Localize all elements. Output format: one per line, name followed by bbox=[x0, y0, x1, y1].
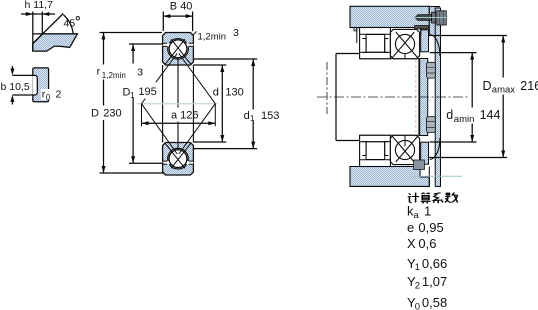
d top extension bbox=[193, 64, 226, 66]
roller cage right top bbox=[385, 39, 389, 53]
roller brg outer raceway top bbox=[360, 33, 391, 35]
svg-text:0,66: 0,66 bbox=[422, 256, 447, 271]
svg-text:amax: amax bbox=[492, 85, 515, 96]
bolt shank bbox=[415, 15, 432, 21]
bottom ball contact X bbox=[165, 143, 191, 168]
svg-text:B 40: B 40 bbox=[170, 0, 193, 12]
axis light line bbox=[137, 103, 218, 105]
top face gap lines bbox=[163, 43, 194, 46]
white backing for r0 bbox=[41, 89, 51, 100]
detail view 2: locating slot b x r0 bbox=[12, 68, 48, 102]
housing top block bbox=[350, 6, 429, 27]
shaft seat top bbox=[360, 58, 420, 60]
right bore line bbox=[192, 65, 194, 143]
b extension line bottom bbox=[12, 94, 32, 96]
top ball contact X bbox=[165, 39, 191, 64]
h extension line right bbox=[41, 12, 43, 34]
housing recess bar top bbox=[415, 25, 429, 29]
damin dimension bbox=[430, 53, 477, 142]
main cross-section: top block bbox=[163, 33, 194, 66]
main cross-section: bottom block bbox=[163, 143, 194, 176]
QJ bearing bottom mounted bbox=[390, 135, 419, 164]
QJ ball bottom mounted bbox=[395, 140, 414, 159]
diamond upper-right segment bbox=[179, 54, 216, 104]
damin dimension arrows bbox=[470, 53, 474, 142]
QJ bearing top mounted bbox=[390, 29, 419, 58]
svg-text:1: 1 bbox=[415, 262, 420, 273]
table heading 计算系数 bbox=[408, 193, 458, 204]
D1 bottom extension bbox=[129, 162, 164, 164]
a extension tick left bbox=[141, 104, 143, 127]
bore lines between blocks bbox=[163, 65, 194, 143]
B dimension arrows bbox=[163, 14, 192, 18]
bolt washer bbox=[432, 12, 436, 23]
roller brg inner raceway top bbox=[360, 51, 391, 53]
svg-text:45: 45 bbox=[64, 18, 76, 30]
housing recess bar bottom bbox=[414, 160, 425, 170]
h extension line left bbox=[32, 12, 34, 52]
diamond lower-right segment bbox=[179, 104, 216, 154]
QJ split bottom mounted bbox=[404, 135, 406, 146]
top outer+inner ring block bbox=[163, 33, 194, 66]
cover outer wall bbox=[435, 8, 440, 186]
d1 dimension arrows bbox=[251, 59, 255, 149]
cover inner fillet bottom bbox=[430, 138, 440, 160]
axis dash-dot bbox=[317, 96, 470, 98]
center split line upper bbox=[177, 65, 179, 108]
d dimension bbox=[193, 65, 226, 142]
B dimension bbox=[163, 12, 192, 32]
D1 top extension bbox=[129, 43, 163, 45]
roller bottom bbox=[366, 142, 385, 160]
housing shoulder edge bbox=[420, 28, 422, 36]
b arrow stems bbox=[11, 66, 13, 105]
spacer ring left of roller bearing bbox=[356, 28, 358, 44]
svg-text:1,2min: 1,2min bbox=[102, 71, 126, 80]
damin dimension line bbox=[471, 53, 473, 142]
roller cage left top bbox=[362, 39, 366, 53]
D1 dimension line segments bbox=[132, 44, 134, 163]
QJ ball top mounted bbox=[395, 34, 414, 53]
svg-text:3: 3 bbox=[233, 27, 239, 39]
cover flange bottom bbox=[421, 142, 429, 164]
svg-text:D: D bbox=[483, 79, 492, 93]
bottom ball gap white bbox=[163, 148, 194, 169]
roller top bbox=[366, 35, 385, 53]
svg-text:h 11,7: h 11,7 bbox=[25, 0, 54, 11]
bottom outer+inner ring block bbox=[163, 143, 194, 176]
cover flange top bbox=[421, 30, 429, 52]
svg-text:1,2min: 1,2min bbox=[198, 32, 227, 43]
red centerline at shaft end bbox=[415, 60, 417, 134]
Damax dimension arrows bbox=[501, 36, 505, 158]
left bore line bbox=[162, 65, 164, 143]
damin bottom extension bbox=[430, 141, 477, 143]
svg-text:0: 0 bbox=[415, 301, 420, 310]
white backing for d 130 bbox=[212, 87, 219, 98]
b extension line top bbox=[12, 74, 32, 76]
Damax dimension bbox=[428, 36, 507, 158]
housing locating nub bbox=[354, 28, 357, 31]
shaft seat bottom bbox=[360, 134, 420, 136]
svg-text:3: 3 bbox=[137, 67, 143, 79]
svg-text:d: d bbox=[446, 108, 453, 122]
top ball gap white bbox=[163, 39, 194, 60]
svg-text:e: e bbox=[407, 220, 414, 235]
svg-text:0,95: 0,95 bbox=[418, 220, 443, 235]
svg-text:1,07: 1,07 bbox=[422, 274, 447, 289]
roller brg outline top bbox=[360, 28, 391, 59]
roller bearing bottom bbox=[360, 135, 391, 166]
svg-text:1: 1 bbox=[130, 91, 135, 100]
white backing for d1 153 bbox=[243, 110, 254, 121]
glyph shu bbox=[445, 193, 458, 203]
seal hex top bbox=[427, 62, 436, 78]
svg-text:1: 1 bbox=[424, 204, 431, 219]
D1 dimension bbox=[129, 44, 164, 163]
D1 dimension arrows bbox=[131, 44, 135, 163]
svg-text:0,6: 0,6 bbox=[418, 236, 436, 251]
bolt bbox=[415, 11, 446, 25]
glyph xi bbox=[433, 193, 443, 204]
svg-text:D: D bbox=[123, 87, 131, 99]
top ball bbox=[169, 40, 187, 58]
Damax dimension line segments bbox=[502, 36, 504, 158]
glyph suan bbox=[421, 193, 431, 204]
chamfer detail top reference line bbox=[33, 33, 78, 35]
D bottom extension bbox=[100, 172, 165, 174]
svg-text:130: 130 bbox=[225, 87, 243, 99]
cover bottom edge bbox=[428, 167, 430, 187]
svg-text:153: 153 bbox=[261, 110, 279, 122]
D top extension bbox=[100, 32, 163, 34]
svg-text:230: 230 bbox=[103, 108, 121, 120]
cover top section bbox=[429, 7, 440, 35]
Damax top extension bbox=[428, 35, 507, 37]
cover inner fillet top bbox=[430, 35, 440, 57]
svg-text:2: 2 bbox=[415, 280, 420, 291]
h dimension arrows bbox=[26, 12, 50, 16]
QJ split top mounted bbox=[404, 54, 406, 59]
h dimension line bbox=[21, 13, 55, 15]
svg-text:195: 195 bbox=[138, 86, 156, 98]
bottom bolt centerline teal bbox=[413, 175, 463, 177]
diamond lower-left segment bbox=[142, 104, 178, 154]
cover hub bbox=[420, 59, 428, 136]
housing bottom block bbox=[350, 167, 429, 187]
svg-text:d: d bbox=[244, 110, 250, 122]
bottom ball bbox=[169, 150, 187, 168]
svg-text:0,58: 0,58 bbox=[422, 295, 447, 310]
detail view 1: ring chamfer cross-section bbox=[21, 12, 77, 52]
svg-text:1: 1 bbox=[250, 114, 255, 123]
shaft bbox=[336, 54, 420, 141]
r chamfer leader right bbox=[193, 31, 197, 35]
shaft shoulder bottom bbox=[336, 140, 360, 142]
QJ contact X bottom mounted bbox=[393, 137, 418, 163]
top raceway arcs bbox=[168, 39, 189, 60]
svg-text:144: 144 bbox=[480, 108, 501, 122]
slot notch bbox=[32, 75, 37, 95]
svg-text:2: 2 bbox=[56, 89, 62, 101]
roller brg outline bottom bbox=[360, 135, 391, 166]
svg-text:d: d bbox=[213, 87, 219, 99]
damin top extension bbox=[430, 52, 477, 54]
B extension lines bbox=[163, 12, 192, 32]
slot ring section fill bbox=[33, 68, 49, 102]
shaft end face bbox=[418, 59, 420, 136]
d dimension arrows bbox=[220, 65, 224, 142]
b dimension arrows bbox=[10, 68, 14, 102]
D dimension line segments bbox=[103, 33, 105, 174]
QJ block top mounted bbox=[390, 29, 419, 58]
bottom inner ring split bbox=[177, 143, 179, 150]
center split line lower bbox=[177, 122, 179, 143]
bolt head facet lines bbox=[440, 11, 443, 25]
roller brg outer raceway bottom bbox=[360, 159, 391, 161]
d1 dimension bbox=[193, 59, 257, 149]
svg-text:amin: amin bbox=[454, 114, 475, 125]
chamfer detail section fill bbox=[33, 34, 78, 51]
d dimension line bbox=[221, 65, 223, 142]
glyph ji bbox=[408, 193, 420, 203]
diamond upper-left segment bbox=[142, 54, 178, 104]
svg-text:b 10,5: b 10,5 bbox=[1, 81, 30, 93]
svg-text:D: D bbox=[91, 108, 99, 120]
top inner ring split bbox=[177, 58, 179, 65]
cover top edge line bbox=[429, 6, 440, 34]
D dimension arrows bbox=[102, 33, 106, 174]
45 degree arc bbox=[64, 15, 74, 34]
svg-text:0: 0 bbox=[46, 93, 51, 102]
svg-text:216: 216 bbox=[520, 79, 538, 93]
svg-text:r: r bbox=[97, 66, 101, 78]
roller bearing top bbox=[360, 28, 391, 59]
QJ block bottom mounted bbox=[390, 135, 419, 164]
seal hex bottom bbox=[427, 117, 436, 133]
bottom raceway arcs bbox=[168, 148, 189, 169]
45 degree chamfer line bbox=[33, 14, 64, 44]
a dimension arrows bbox=[142, 121, 216, 125]
d1 bottom extension bbox=[193, 148, 257, 150]
D dimension bbox=[100, 33, 165, 174]
Damax bottom extension bbox=[428, 157, 507, 159]
svg-text:a 126: a 126 bbox=[171, 110, 199, 122]
QJ contact X top mounted bbox=[393, 32, 418, 58]
bolt centerline teal bbox=[412, 17, 448, 19]
d1 top extension bbox=[193, 58, 257, 60]
svg-text:X: X bbox=[407, 236, 416, 251]
roller cage left bottom bbox=[362, 142, 366, 156]
roller brg inner raceway bottom bbox=[360, 141, 391, 143]
d1 dimension line bbox=[252, 59, 254, 149]
contact line diamond bbox=[142, 54, 216, 155]
B dimension line bbox=[163, 15, 192, 17]
shaft shoulder top bbox=[336, 53, 360, 55]
a extension tick right bbox=[214, 104, 216, 127]
vertical centerline dash-dot bbox=[326, 62, 328, 114]
bolt head bbox=[437, 11, 447, 25]
shaft shoulder end face bbox=[335, 54, 337, 141]
bottom face gap lines bbox=[163, 161, 194, 164]
roller cage right bottom bbox=[385, 142, 389, 156]
d bottom extension bbox=[193, 141, 226, 143]
bolt thread lines bbox=[419, 15, 428, 21]
a dimension line bbox=[142, 122, 216, 124]
